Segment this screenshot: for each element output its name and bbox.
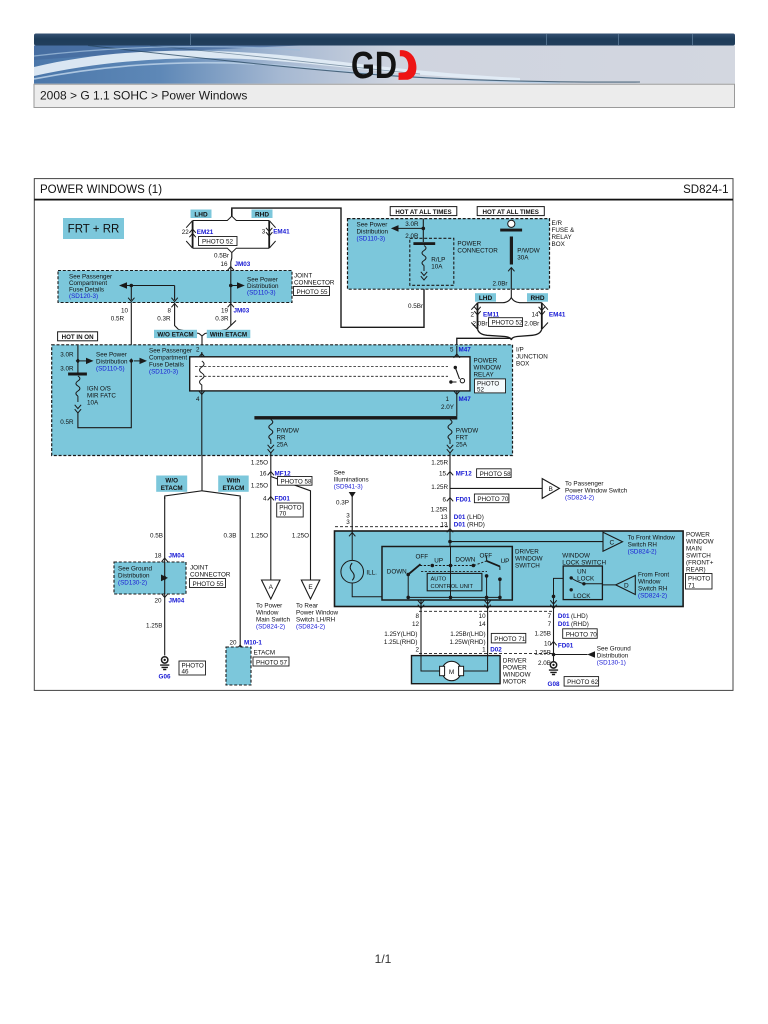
svg-text:RELAY: RELAY [474,372,495,379]
svg-text:(LHD): (LHD) [571,613,588,620]
svg-text:(SD120-3): (SD120-3) [149,369,178,376]
svg-text:2: 2 [470,312,474,319]
svg-text:SWITCH: SWITCH [686,553,711,560]
svg-text:UP: UP [501,558,510,565]
svg-text:Distribution: Distribution [357,229,389,236]
label 2.0Br left [472,320,487,327]
photo ref PHOTO 57 [253,657,289,666]
pin 20 M10-1 [229,640,262,649]
label With ETACM (2-line) [218,476,249,493]
svg-text:25A: 25A [456,442,468,449]
svg-text:(SD110-3): (SD110-3) [357,236,386,243]
label POWER WINDOW MAIN SWITCH (FRONT+REAR) [686,532,714,574]
svg-text:I/P: I/P [516,347,524,354]
svg-text:E/R: E/R [552,220,563,227]
pin 19 / 0.3R JM03 [215,308,250,323]
svg-text:0.5R: 0.5R [111,316,125,323]
pin 13 D01 LHD/RHD [440,514,483,521]
pin 3 EM41 [262,229,290,236]
svg-text:See Ground: See Ground [118,566,152,573]
svg-text:(SD824-2): (SD824-2) [296,624,325,631]
svg-text:E: E [308,584,313,591]
svg-text:P/WDW: P/WDW [277,428,299,435]
svg-text:CONTROL UNIT: CONTROL UNIT [431,584,474,590]
svg-text:JM04: JM04 [169,598,185,605]
svg-text:20: 20 [229,640,237,647]
svg-text:See Power: See Power [357,222,388,229]
switch vertical links [408,547,500,598]
svg-text:EM41: EM41 [549,312,566,319]
pin 10 FD01 [544,641,574,650]
svg-text:18: 18 [154,553,162,560]
svg-text:Switch LH/RH: Switch LH/RH [296,617,336,624]
svg-text:Compartment: Compartment [149,355,187,362]
wire lamp to switch box [352,583,382,597]
off-page connector C [603,532,623,551]
label HOT AT ALL TIMES (left) [390,207,457,216]
svg-text:D: D [624,583,629,590]
svg-text:LOCK: LOCK [573,593,591,600]
svg-text:WINDOW: WINDOW [474,365,502,372]
relay contact [449,366,464,384]
svg-text:JOINT: JOINT [294,273,312,280]
label 1.25R (3) [431,507,448,514]
svg-text:LHD: LHD [479,295,493,302]
note See Power Distribution (SD110-3) in box [247,277,279,297]
photo ref PHOTO 71 right [686,574,713,590]
wire 1.25O MF12 run [251,460,271,581]
svg-text:JM03: JM03 [235,261,251,268]
svg-text:3.0R: 3.0R [60,366,74,373]
svg-text:2.0Br: 2.0Br [472,320,487,327]
label JOINT CONNECTOR (lower) [190,565,231,579]
breadcrumb bar [34,84,735,107]
label 1.25O (3) [251,533,268,540]
svg-text:UP: UP [434,558,443,565]
svg-text:2.0B: 2.0B [538,660,551,667]
label WINDOW LOCK SWITCH [562,553,606,567]
svg-text:See: See [334,470,346,477]
svg-text:JOINT: JOINT [190,565,208,572]
svg-text:1.25L(RHD): 1.25L(RHD) [384,639,418,646]
note See Ground Distribution (SD130-2) [118,566,152,587]
wire branch to E [271,477,311,581]
svg-text:1.25B: 1.25B [146,623,162,630]
svg-text:1.25R: 1.25R [431,460,448,467]
svg-text:SWITCH: SWITCH [515,563,540,570]
fuse P/WDW RR 25A [268,420,299,454]
label 0.5Br (left wire) [408,303,423,310]
svg-text:3: 3 [346,519,350,526]
svg-text:PHOTO 57: PHOTO 57 [256,659,288,666]
wire ign feed [60,346,78,373]
box: driver power window motor [412,656,501,684]
wire pin4 fork [165,456,241,500]
svg-text:To Rear: To Rear [296,603,318,610]
svg-text:22: 22 [182,229,190,236]
label DRIVER POWER WINDOW MOTOR [503,658,531,686]
svg-text:Distribution: Distribution [96,359,128,366]
pin 15 MF12 [439,471,472,478]
svg-text:0.3B: 0.3B [224,533,237,540]
svg-text:(SD130-2): (SD130-2) [118,580,147,587]
label 1.25Y/1.25L [384,631,418,646]
box: power connector (dashed) [410,238,454,285]
diagram frame [34,179,733,691]
svg-text:D01: D01 [558,621,570,628]
svg-text:PHOTO 58: PHOTO 58 [480,471,512,478]
svg-text:70: 70 [279,511,287,518]
svg-text:FD01: FD01 [456,497,472,504]
svg-text:(SD824-2): (SD824-2) [565,495,594,502]
svg-text:1.25R: 1.25R [431,484,448,491]
wire illumination feed [336,492,356,531]
wire ill into box [349,531,355,561]
svg-text:Fuse Details: Fuse Details [149,362,184,369]
lock switch internals [570,569,596,601]
box: ground distribution joint connector (dashed cyan) [114,562,186,594]
svg-text:2008 > G 1.1 SOHC > Power Wind: 2008 > G 1.1 SOHC > Power Windows [40,89,247,103]
wire FRT fuse out [449,453,451,470]
off-page connector E [301,580,320,599]
off-page connector A [262,580,281,599]
svg-text:EM41: EM41 [273,229,290,236]
svg-text:M10-1: M10-1 [244,640,262,647]
svg-text:CONNECTOR: CONNECTOR [294,280,335,287]
svg-text:P/WDW: P/WDW [456,428,478,435]
svg-text:Distribution: Distribution [597,653,629,660]
svg-text:BOX: BOX [552,241,566,248]
wire merge down to relay pin 5 [457,329,542,345]
svg-text:2.0R: 2.0R [405,233,419,240]
label LHD (right) [475,293,496,302]
svg-text:0.3P: 0.3P [336,500,349,507]
note To Rear Power Window Switch LH RH (SD824-2) [296,603,338,631]
wire 0.5B down [150,497,165,562]
pins 8/12 [412,613,420,628]
pin 2 EM11 [470,312,499,319]
svg-text:(SD941-3): (SD941-3) [334,484,363,491]
svg-text:HOT AT ALL TIMES: HOT AT ALL TIMES [483,209,539,216]
photo ref PHOTO 52 mid [489,318,524,327]
svg-text:19: 19 [221,308,229,315]
svg-text:(SD120-3): (SD120-3) [69,293,98,300]
label 0.5R [60,419,74,426]
svg-text:10A: 10A [431,264,443,271]
wire split to EM11/EM41 [478,289,542,303]
svg-text:1.25R: 1.25R [431,507,448,514]
svg-text:With ETACM: With ETACM [210,332,247,339]
svg-text:(FRONT+: (FRONT+ [686,560,714,567]
svg-text:CONNECTOR: CONNECTOR [457,247,498,254]
wire 10 down to HOT box [130,303,132,362]
svg-text:Main Switch: Main Switch [256,617,290,624]
svg-text:1.25Y(LHD): 1.25Y(LHD) [384,631,417,638]
svg-text:(SD824-2): (SD824-2) [628,549,657,556]
fuse P/WDW FRT 25A [447,420,478,454]
svg-text:WINDOW: WINDOW [515,556,543,563]
svg-text:Switch RH: Switch RH [638,586,668,593]
GDS logo [351,45,416,87]
svg-text:Power Window: Power Window [296,610,338,617]
photo ref PHOTO 52 top [199,237,238,246]
svg-text:D01: D01 [454,521,466,528]
note To Passenger Power Window Switch (SD824-2) [565,481,628,502]
svg-text:Window: Window [638,579,661,586]
svg-text:2.0Br: 2.0Br [492,281,507,288]
svg-text:HOT AT ALL TIMES: HOT AT ALL TIMES [395,209,451,216]
label DRIVER WINDOW SWITCH [515,549,543,570]
photo ref PHOTO 71 motor [491,633,526,643]
svg-text:RR: RR [277,435,287,442]
svg-text:DOWN: DOWN [455,557,475,564]
svg-text:20: 20 [154,598,162,605]
svg-text:With: With [227,477,241,484]
wire fuse out loop to junction [78,363,131,428]
svg-text:MIR FATC: MIR FATC [87,393,116,400]
svg-text:6: 6 [442,497,446,504]
ground G08 [548,662,560,688]
svg-text:0.3R: 0.3R [215,316,229,323]
photo ref PHOTO 55 [294,287,330,296]
pin 8 / 0.3R [157,308,171,323]
svg-text:JUNCTION: JUNCTION [516,354,548,361]
svg-text:2.0Y: 2.0Y [441,404,455,411]
svg-text:25A: 25A [277,442,289,449]
svg-text:1: 1 [482,647,486,654]
svg-text:MF12: MF12 [456,471,473,478]
wire 1.25R run [431,460,450,528]
svg-text:Power Window Switch: Power Window Switch [565,488,628,495]
svg-text:AUTO: AUTO [431,577,447,583]
svg-text:GD: GD [351,45,397,87]
svg-text:8: 8 [167,308,171,315]
connector dashed line D01 [335,526,450,528]
pin 6 FD01 [442,497,471,504]
label E/R FUSE & RELAY BOX [552,220,576,248]
photo ref PHOTO 46 [179,661,206,676]
svg-text:10: 10 [479,613,487,620]
svg-text:10A: 10A [87,400,99,407]
svg-text:1: 1 [445,396,449,403]
svg-text:0.5B: 0.5B [150,533,163,540]
svg-text:JM03: JM03 [234,308,250,315]
svg-text:PHOTO 58: PHOTO 58 [281,479,313,486]
svg-text:5: 5 [450,347,454,354]
wire EM41 stub [539,303,545,330]
label 0.5Br [214,253,229,260]
svg-text:1.25O: 1.25O [292,533,309,540]
fuse R/LP 10A [413,242,445,280]
svg-text:15: 15 [439,471,447,478]
photo ref PHOTO 70 left [277,503,304,518]
box: I/P junction box (dashed cyan) [52,345,513,456]
svg-text:(LHD): (LHD) [467,514,484,521]
svg-text:ETACM: ETACM [222,485,244,492]
pin 14 EM41 [531,312,565,319]
svg-text:FRT + RR: FRT + RR [68,224,120,236]
svg-text:0.5R: 0.5R [60,419,74,426]
wire 19 down, converge [227,303,237,330]
svg-text:POWER: POWER [457,240,481,247]
svg-text:PHOTO 62: PHOTO 62 [567,679,599,686]
junction + see ground distribution SD130-1 [552,651,595,658]
label 1.25R (2) [431,484,448,491]
label POWER WINDOW RELAY [474,358,502,379]
svg-text:FD01: FD01 [275,496,291,503]
svg-text:DRIVER: DRIVER [515,549,539,556]
relay internal dashed lines [195,367,448,377]
svg-text:MAIN: MAIN [686,546,702,553]
svg-text:D02: D02 [490,647,502,654]
svg-text:WINDOW: WINDOW [562,553,590,560]
svg-text:G08: G08 [548,681,560,688]
label 1.25B (2) [535,650,551,657]
pins 10/14 [479,613,487,628]
label W/O ETACM (2-line) [156,476,187,493]
svg-text:SD824-1: SD824-1 [683,184,728,196]
switch left group [387,554,475,577]
svg-text:See Passenger: See Passenger [149,348,192,355]
svg-text:B: B [549,486,553,493]
svg-text:RELAY: RELAY [552,234,573,241]
svg-text:IGN O/S: IGN O/S [87,386,111,393]
svg-text:To Passenger: To Passenger [565,481,604,488]
svg-text:LHD: LHD [194,211,208,218]
connector dashed line D02 top [419,610,554,612]
wire switch out mid (pin10) [484,599,490,655]
svg-text:See Power: See Power [96,352,127,359]
svg-text:0.3R: 0.3R [157,316,171,323]
note See Power Distribution (SD110-5) [96,352,128,373]
wire to connector C [450,541,603,543]
svg-text:46: 46 [182,669,190,676]
svg-text:HOT IN ON: HOT IN ON [62,334,94,341]
svg-text:RHD: RHD [530,295,544,302]
arrow see passenger compartment [129,358,147,364]
label 1.25B [535,631,551,638]
svg-text:PHOTO 70: PHOTO 70 [566,631,598,638]
wire EM41 stub [266,221,272,249]
connector EM21/EM41 outline [186,209,275,253]
banner band [34,46,735,84]
box: passenger compartment fuse details (dashed) [58,271,292,303]
svg-text:FD01: FD01 [558,643,574,650]
wire switch out right (pin7) [550,600,556,668]
svg-text:1.25O: 1.25O [251,460,268,467]
pin 2 entering relay [196,347,205,358]
svg-text:3.0R: 3.0R [60,352,74,359]
wire lock feed down [552,578,564,606]
svg-text:POWER WINDOWS (1): POWER WINDOWS (1) [40,184,162,196]
wire branch to B [450,487,542,489]
pin 4 below relay [196,391,205,456]
motor M [421,656,488,681]
svg-text:0.5Br: 0.5Br [408,303,423,310]
wire 8 down, converge [171,303,178,330]
svg-text:(SD824-2): (SD824-2) [256,624,285,631]
svg-text:UN: UN [577,569,587,576]
svg-text:Illuminations: Illuminations [334,477,369,484]
pin 10 / 0.5R [111,308,129,323]
svg-text:RHD: RHD [255,211,269,218]
label ETACM [254,650,276,657]
svg-text:1.25O: 1.25O [251,533,268,540]
svg-text:WINDOW: WINDOW [686,539,714,546]
wire switch out left (pin8) [418,599,424,655]
label 1.25O (2) [251,483,268,490]
relay coil [200,361,205,391]
svg-text:PHOTO 55: PHOTO 55 [297,289,329,296]
svg-text:D01: D01 [454,514,466,521]
photo ref PHOTO 55 lower [190,579,226,588]
label W/O ETACM [154,330,197,339]
box: window lock switch [563,566,602,600]
pins 7/7 D01 [548,613,589,628]
note See Passenger Compartment Fuse Details (SD120-3) [69,274,112,301]
svg-text:FUSE &: FUSE & [552,227,576,234]
svg-text:WINDOW: WINDOW [503,672,531,679]
wire 1.25B to ground [146,594,165,656]
box: ETACM (dashed cyan) [226,647,251,685]
svg-text:OFF: OFF [480,553,493,560]
off-page connector B [542,479,559,499]
fuse IGN O/S MIR FATC 10A [68,373,116,414]
wire merge to pin2 [179,330,227,345]
svg-text:0.5Br: 0.5Br [214,253,229,260]
note See Illuminations (SD941-3) [334,470,369,491]
svg-text:12: 12 [412,621,420,628]
pin 1 D02 [482,647,502,654]
svg-text:2: 2 [415,647,419,654]
wire 0.5Br to JM03 [231,253,232,271]
svg-text:DOWN: DOWN [387,569,407,576]
wire lock to D [584,584,616,585]
svg-text:Switch RH: Switch RH [628,542,658,549]
photo ref PHOTO 58 left [278,477,313,486]
photo ref PHOTO 70 bottom [563,629,598,639]
svg-text:M47: M47 [459,396,472,403]
arrow in ground dist box [161,562,168,594]
svg-text:PHOTO 55: PHOTO 55 [193,581,225,588]
fuse P/WDW 30A [500,220,540,289]
label LHD [191,210,212,219]
svg-text:(RHD): (RHD) [467,521,485,528]
svg-text:DRIVER: DRIVER [503,658,527,665]
svg-text:PHOTO 71: PHOTO 71 [494,636,526,643]
photo ref PHOTO 52 relay [475,379,506,394]
box: power window main switch (cyan) [335,531,684,607]
connector dashed line D02 bottom [419,652,552,654]
svg-text:EM21: EM21 [197,229,214,236]
svg-text:C: C [610,540,615,547]
auto control unit [421,571,487,590]
label JOINT CONNECTOR [294,273,335,287]
svg-text:From Front: From Front [638,572,669,579]
svg-text:Distribution: Distribution [118,573,150,580]
svg-text:PHOTO 52: PHOTO 52 [492,320,524,327]
note To Power Window Main Switch (SD824-2) [256,603,290,631]
wire hot feed to R/LP fuse [405,219,423,242]
svg-text:13: 13 [440,514,448,521]
pin 16 JM03 [220,261,250,270]
svg-text:REAR): REAR) [686,567,706,574]
wire 0.3B down [224,497,241,647]
svg-text:P/WDW: P/WDW [517,248,539,255]
svg-text:71: 71 [688,582,696,589]
svg-text:4: 4 [196,396,200,403]
svg-text:2.0Br: 2.0Br [524,320,539,327]
